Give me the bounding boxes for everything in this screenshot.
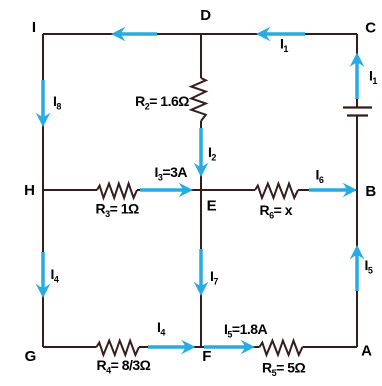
current arrow I2 (middle vertical, down to E) — [194, 128, 209, 177]
svg-text:E: E — [207, 198, 217, 215]
svg-text:R2= 1.6Ω: R2= 1.6Ω — [135, 93, 189, 112]
svg-text:I8: I8 — [53, 93, 61, 112]
wire: right battery-B-A — [356, 116, 358, 347]
svg-text:A: A — [361, 343, 372, 360]
wire: middle vertical D-E-F (with gap for R2) — [200, 34, 202, 347]
current arrow I7 (middle vertical, down) — [194, 249, 209, 296]
current arrow I5 (bottom, from F toward R5) — [204, 340, 255, 355]
svg-text:I1: I1 — [369, 68, 377, 87]
battery cell E1 — [343, 108, 372, 116]
svg-text:I3=3A: I3=3A — [155, 164, 188, 183]
svg-text:I5: I5 — [365, 257, 373, 276]
svg-text:H: H — [24, 182, 35, 199]
svg-text:R4= 8/3Ω: R4= 8/3Ω — [97, 357, 151, 376]
svg-text:I2: I2 — [208, 144, 216, 163]
resistor R5 (F-A branch) — [260, 341, 303, 355]
svg-text:I4: I4 — [157, 319, 165, 338]
resistor R2 (vertical, D-E branch) — [191, 78, 206, 121]
svg-text:I7: I7 — [210, 268, 218, 287]
wire: left I-H-G — [42, 34, 44, 347]
current arrow I4 (left vertical, down) — [36, 252, 51, 298]
svg-text:I5=1.8A: I5=1.8A — [224, 321, 268, 340]
wire: top I-D-C — [43, 33, 357, 35]
resistor R4 (G-F branch) — [97, 341, 140, 355]
svg-text:R5= 5Ω: R5= 5Ω — [262, 360, 305, 379]
svg-text:G: G — [25, 348, 37, 365]
resistor R3 (H-E branch) — [97, 184, 137, 198]
svg-text:F: F — [202, 348, 211, 365]
svg-text:B: B — [365, 183, 376, 200]
current arrow I4 (bottom, toward F) — [148, 340, 196, 355]
svg-text:R3= 1Ω: R3= 1Ω — [96, 201, 139, 220]
current arrow I8 (left vertical, down) — [36, 80, 51, 127]
current arrow I5 (right vertical, up) — [350, 245, 365, 291]
current arrow I3 (toward E, right) — [140, 183, 193, 198]
svg-text:I4: I4 — [51, 266, 59, 285]
wire: middle horizontal H-E-B (with gaps for R3,R6) — [43, 189, 357, 191]
current arrow I1 (top, C to D) — [256, 27, 305, 42]
current arrow I1 (right vertical, up toward C) — [350, 53, 365, 100]
wire: bottom G-F-A (with gaps for R4,R5) — [43, 346, 357, 348]
svg-text:R6= x: R6= x — [260, 202, 293, 221]
svg-text:I1: I1 — [280, 36, 288, 55]
wire: right C-battery — [356, 34, 358, 107]
current arrow D to I (unlabeled, top-left) — [111, 27, 157, 42]
svg-text:D: D — [200, 7, 211, 24]
resistor R6 (E-B branch) — [255, 184, 298, 198]
current arrow I6 (toward B, right) — [309, 183, 357, 198]
svg-text:C: C — [365, 20, 376, 37]
svg-text:I: I — [32, 19, 36, 36]
svg-text:I6: I6 — [316, 167, 324, 186]
